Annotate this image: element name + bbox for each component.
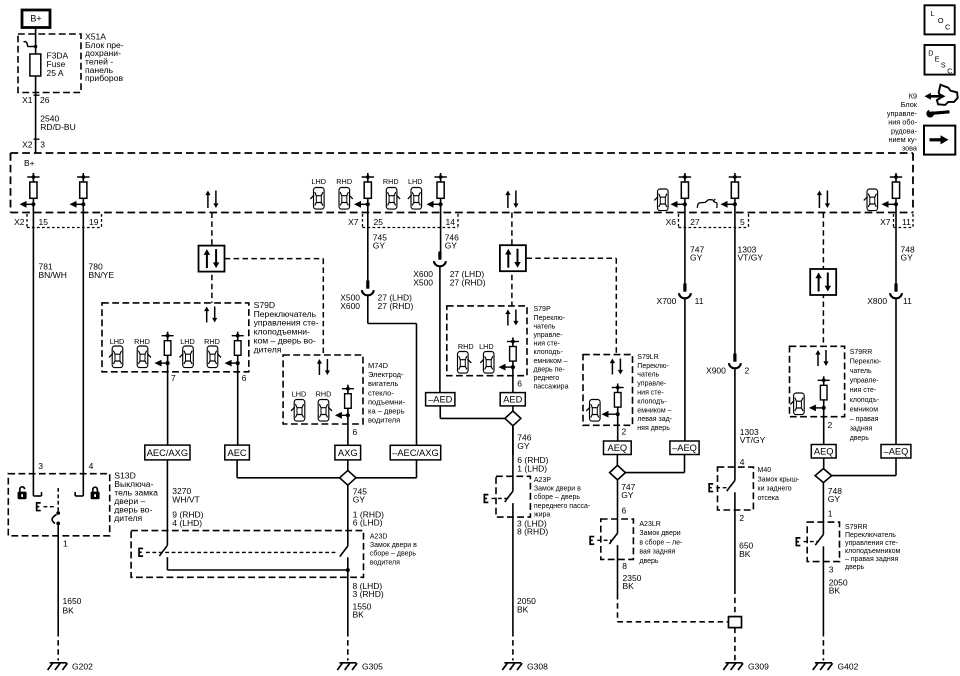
label LHD xyxy=(479,342,494,351)
wire dashed to G202 xyxy=(57,631,59,661)
svg-text:Электрод-: Электрод- xyxy=(368,370,404,379)
svg-text:BN/YE: BN/YE xyxy=(89,270,115,280)
svg-text:задняя: задняя xyxy=(850,426,873,433)
label pins 3 LHD 8 RHD xyxy=(517,519,548,537)
wire dashed to G402 xyxy=(822,631,824,661)
flag box -AED xyxy=(426,393,455,406)
svg-text:1 (LHD): 1 (LHD) xyxy=(517,463,547,473)
wire AEQ right to junction xyxy=(823,458,825,469)
wire dashed 650 BK to splice xyxy=(734,589,736,617)
window switch S79RR bottom dashed box xyxy=(807,522,839,562)
svg-text:2: 2 xyxy=(828,420,833,430)
ground G202 xyxy=(48,662,93,672)
bus tap fuse to circuit 745 xyxy=(354,173,374,208)
svg-text:дверь: дверь xyxy=(845,564,865,571)
svg-text:RHD: RHD xyxy=(383,177,399,186)
svg-text:клоподъемником: клоподъемником xyxy=(845,548,901,555)
svg-text:Замок двери в: Замок двери в xyxy=(534,486,581,493)
svg-text:5: 5 xyxy=(740,217,745,227)
svg-text:4: 4 xyxy=(89,461,94,471)
label A23P door lock front passenger xyxy=(534,477,591,518)
svg-text:3 (RHD): 3 (RHD) xyxy=(353,589,384,599)
svg-text:X7: X7 xyxy=(348,217,359,227)
flag box -AEQ left xyxy=(670,441,699,455)
wire -AEC/AXG to junction xyxy=(356,460,416,478)
bus tap fuse to circuit 748 xyxy=(882,173,903,208)
svg-text:WH/VT: WH/VT xyxy=(172,495,199,505)
svg-text:управле-: управле- xyxy=(887,109,918,118)
updown arrows in S79RR xyxy=(815,350,828,366)
svg-text:пассажира: пассажира xyxy=(534,384,569,391)
wire AEC to junction xyxy=(237,460,339,478)
svg-text:зова: зова xyxy=(902,144,918,153)
label LHD xyxy=(292,390,307,399)
wire 1303 VT/GY to M40 xyxy=(734,368,736,475)
svg-text:управле-: управле- xyxy=(850,378,880,385)
svg-text:X900: X900 xyxy=(706,365,726,375)
wire 3270 WH/VT xyxy=(166,460,168,545)
label 780 BN/YE xyxy=(89,262,115,281)
label 746 GY lower xyxy=(517,433,531,451)
svg-text:BK: BK xyxy=(353,609,365,619)
wire S13D pin1 down xyxy=(58,523,68,631)
label LHD xyxy=(180,337,195,346)
car icon at X7 right xyxy=(864,189,878,211)
pin tick X2-3 xyxy=(34,138,40,140)
svg-text:X600: X600 xyxy=(340,301,360,311)
label RHD xyxy=(383,177,399,186)
fuse arrow unit S79LR pin 2 xyxy=(602,384,624,418)
svg-text:B+: B+ xyxy=(30,14,41,24)
label X2 pin 3 xyxy=(22,140,45,150)
car icon LHD xyxy=(480,352,494,374)
svg-text:ния обо-: ния обо- xyxy=(888,118,917,127)
svg-text:BK: BK xyxy=(517,604,529,614)
wire AEQ to junction xyxy=(616,455,618,466)
svg-text:4: 4 xyxy=(740,457,745,467)
svg-text:1650: 1650 xyxy=(63,596,82,606)
car icon LHD xyxy=(180,346,194,368)
svg-text:AEC: AEC xyxy=(228,448,247,458)
K9 module outline icon xyxy=(937,85,958,105)
DESC reference box xyxy=(925,45,955,75)
pin tick X1-26 xyxy=(34,94,40,96)
svg-text:отсека: отсека xyxy=(758,495,779,502)
wire dashed to G305 xyxy=(347,631,349,661)
label S79RR window switch right rear xyxy=(850,349,882,442)
switch E actuator A23D xyxy=(139,548,337,556)
svg-text:водителя: водителя xyxy=(368,416,400,425)
svg-text:7: 7 xyxy=(171,373,176,383)
car icon LHD xyxy=(310,188,324,210)
svg-text:ки заднего: ки заднего xyxy=(758,486,792,493)
label LHD xyxy=(408,177,423,186)
label S79D window switch driver door xyxy=(254,300,319,355)
svg-text:стекло-: стекло- xyxy=(368,388,394,397)
label 3270 WH/VT xyxy=(172,486,199,504)
svg-text:AEQ: AEQ xyxy=(608,443,628,453)
flag box AEC/AXG xyxy=(145,445,190,460)
svg-text:G402: G402 xyxy=(838,662,859,672)
label A23D door lock driver xyxy=(370,533,417,566)
svg-text:LHD: LHD xyxy=(292,390,307,399)
wire 748 GY to -AEQ right xyxy=(895,298,897,445)
switch blade M40 and wire down xyxy=(727,475,745,589)
trunk lock M40 dashed box xyxy=(718,467,754,510)
svg-text:AEC/AXG: AEC/AXG xyxy=(147,448,188,458)
boxed updown arrows S79RR xyxy=(810,269,836,295)
fuse arrow unit S79P pin 6 xyxy=(499,338,519,371)
wire 747 GY upper xyxy=(684,204,686,284)
svg-text:ния сте-: ния сте- xyxy=(534,341,561,348)
switch S13D center post xyxy=(52,488,60,525)
switch blade S79RR and wire down xyxy=(815,510,833,631)
svg-text:S: S xyxy=(941,61,946,70)
label X600 X500 xyxy=(413,269,433,288)
label pins 1 RHD 6 LHD xyxy=(353,509,384,527)
window motor M74D dashed box xyxy=(283,355,363,424)
switch E actuator S79RR xyxy=(796,538,818,546)
flag box -AEQ right xyxy=(881,445,911,459)
bus tap fuse to circuit 1303 xyxy=(721,173,742,208)
svg-text:6: 6 xyxy=(353,427,358,437)
junction diamond 748 xyxy=(815,469,832,483)
label pins 27 LHD RHD xyxy=(450,269,486,288)
svg-text:ния сте-: ния сте- xyxy=(637,390,664,397)
wire S79P pin6 to AED xyxy=(513,367,522,393)
svg-text:X1: X1 xyxy=(22,95,33,105)
svg-text:AXG: AXG xyxy=(338,448,358,458)
updown arrows at S79P control xyxy=(505,191,518,209)
label 2050 BK right xyxy=(829,578,848,596)
connector X2 pin box xyxy=(14,214,101,228)
LOC reference box xyxy=(925,5,955,34)
svg-text:емником –: емником – xyxy=(534,358,568,365)
svg-text:вая задняя: вая задняя xyxy=(639,549,675,556)
svg-text:BK: BK xyxy=(829,585,841,595)
bus tap fuse to circuit 780 xyxy=(70,173,90,208)
wire 746 GY upper xyxy=(440,204,442,251)
svg-text:клоподъ-: клоподъ- xyxy=(534,349,564,356)
door lock A23P dashed box xyxy=(496,476,530,517)
svg-text:ния сте-: ния сте- xyxy=(850,387,877,394)
svg-text:C: C xyxy=(947,66,952,75)
switch E actuator A23LR xyxy=(590,537,612,545)
svg-text:D: D xyxy=(928,49,933,58)
label RHD xyxy=(316,390,332,399)
wire 745 GY upper xyxy=(367,204,369,281)
svg-text:Переключатель: Переключатель xyxy=(845,532,896,539)
wire label 2540 RD/D-BU xyxy=(40,114,75,133)
svg-text:3: 3 xyxy=(38,461,43,471)
car icon right rear xyxy=(790,393,804,415)
svg-text:25 A: 25 A xyxy=(47,68,64,78)
svg-text:3: 3 xyxy=(829,565,834,575)
connector X900 inline xyxy=(729,354,741,369)
svg-text:C: C xyxy=(945,22,951,31)
svg-text:управле-: управле- xyxy=(637,381,667,388)
svg-text:27 (RHD): 27 (RHD) xyxy=(378,301,414,311)
svg-text:25: 25 xyxy=(374,217,384,227)
bus tap fuse to circuit 747 xyxy=(671,173,692,208)
svg-text:11: 11 xyxy=(903,296,912,306)
car icon RHD xyxy=(339,188,353,210)
bus tap fuse to circuit 746 xyxy=(427,173,447,208)
svg-text:BK: BK xyxy=(623,581,635,591)
svg-text:X500: X500 xyxy=(413,278,433,288)
wire AXG to junction xyxy=(347,460,349,471)
updown arrows in S79LR xyxy=(610,359,623,375)
svg-text:Замок крыш-: Замок крыш- xyxy=(758,476,800,483)
svg-text:дверь: дверь xyxy=(639,558,659,565)
svg-text:чатель: чатель xyxy=(534,323,556,330)
connector X800 inline xyxy=(890,284,902,299)
car icon at X6 xyxy=(654,189,668,211)
wire AED to junction xyxy=(512,406,514,411)
svg-text:управле-: управле- xyxy=(534,332,564,339)
boxed updown arrows S79D xyxy=(199,246,225,272)
wire from B+ to fuse F3DA xyxy=(35,28,37,55)
svg-text:S79RR: S79RR xyxy=(845,524,868,531)
svg-text:M74D: M74D xyxy=(368,361,389,370)
svg-text:S79RR: S79RR xyxy=(850,349,873,356)
svg-text:14: 14 xyxy=(446,217,456,227)
svg-text:ка – дверь: ка – дверь xyxy=(368,407,405,416)
window switch S79D dashed box xyxy=(102,303,249,372)
svg-text:S79LR: S79LR xyxy=(637,354,658,361)
wire S79D pin6 to AEC xyxy=(238,363,247,445)
svg-text:X2: X2 xyxy=(14,217,25,227)
switch blade A23P and wire down xyxy=(505,426,513,631)
wire A23D bottom link xyxy=(167,557,349,572)
flag box AXG xyxy=(335,445,361,460)
ground G308 xyxy=(502,662,548,672)
wire S79RR pin2 to AEQ xyxy=(824,408,833,445)
svg-text:сборе – дверь: сборе – дверь xyxy=(534,493,580,501)
svg-text:19: 19 xyxy=(89,217,99,227)
svg-text:клоподъ-: клоподъ- xyxy=(850,397,880,404)
svg-text:GY: GY xyxy=(373,240,386,250)
svg-text:6: 6 xyxy=(622,506,627,516)
connector X7 right pin box xyxy=(880,214,913,228)
svg-text:GY: GY xyxy=(901,253,914,263)
svg-text:8 (RHD): 8 (RHD) xyxy=(517,527,548,537)
wire 1303 VT/GY upper xyxy=(734,204,736,354)
svg-text:Замок двери в: Замок двери в xyxy=(370,542,417,549)
svg-text:GY: GY xyxy=(828,494,841,504)
svg-text:8: 8 xyxy=(622,561,627,571)
label F3DA Fuse 25 A xyxy=(47,51,69,78)
svg-text:X2: X2 xyxy=(22,140,33,150)
switch E actuator M40 xyxy=(709,484,730,492)
wire hooks into S13D xyxy=(33,492,83,496)
svg-text:GY: GY xyxy=(690,253,703,263)
flag box AED xyxy=(500,393,525,406)
svg-text:AED: AED xyxy=(503,395,522,405)
svg-text:2: 2 xyxy=(622,427,627,437)
label X800 pin 11 xyxy=(867,296,912,306)
svg-text:X700: X700 xyxy=(657,296,677,306)
car icon RHD xyxy=(318,400,332,422)
label 1650 BK xyxy=(63,596,82,616)
svg-text:M40: M40 xyxy=(758,467,772,474)
svg-text:6: 6 xyxy=(517,379,522,389)
label 748 GY lower xyxy=(828,486,842,504)
fuse arrow unit S79D pin 7 xyxy=(155,332,174,367)
control dashed branch to M74D xyxy=(225,259,324,355)
svg-text:вигатель: вигатель xyxy=(368,379,398,388)
wire 780 BN/YE xyxy=(82,204,84,496)
flag box -AEC/AXG xyxy=(390,445,441,460)
flag box AEC xyxy=(225,445,250,460)
svg-text:G308: G308 xyxy=(527,662,548,672)
svg-text:11: 11 xyxy=(695,296,704,306)
svg-text:левая зад-: левая зад- xyxy=(637,416,672,423)
svg-text:2: 2 xyxy=(745,365,750,375)
label pins 3 and 4 xyxy=(38,461,93,471)
label K9 body control module xyxy=(887,92,918,153)
label 748 GY xyxy=(901,244,915,262)
svg-text:– правая задняя: – правая задняя xyxy=(845,556,899,563)
car icon LHD xyxy=(291,400,305,422)
svg-text:A23P: A23P xyxy=(534,477,551,484)
label 650 BK xyxy=(739,541,753,560)
wire fuse to bus with connectors X1 X2 xyxy=(35,76,37,153)
svg-text:VT/GY: VT/GY xyxy=(738,253,764,263)
label RHD xyxy=(458,342,474,351)
svg-text:X800: X800 xyxy=(867,296,887,306)
label 781 BN/WH xyxy=(39,262,67,281)
fuse clip hook xyxy=(24,42,38,49)
svg-text:сборе – дверь: сборе – дверь xyxy=(370,550,416,558)
label S79RR window switch right rear bottom xyxy=(845,524,901,571)
svg-text:GY: GY xyxy=(353,495,366,505)
car icon RHD xyxy=(458,352,472,374)
svg-text:G305: G305 xyxy=(362,662,383,672)
switch blade A23D left xyxy=(159,545,167,556)
svg-text:O: O xyxy=(938,16,944,25)
connector X6 pin box xyxy=(666,214,749,228)
updown arrows in S79D xyxy=(204,307,217,323)
open padlock icon xyxy=(18,487,27,499)
svg-text:емником: емником xyxy=(850,406,879,413)
svg-text:RD/D-BU: RD/D-BU xyxy=(40,122,75,132)
updown arrows in S79P xyxy=(505,310,518,326)
svg-text:A23D: A23D xyxy=(370,533,388,540)
svg-text:4 (LHD): 4 (LHD) xyxy=(172,518,202,528)
wire 745 GY to A23D xyxy=(347,485,349,546)
label pins 27 LHD RHD xyxy=(378,292,414,310)
label pins 9 RHD 4 LHD xyxy=(172,510,203,528)
label X1 pin 26 xyxy=(22,95,50,105)
label 747 GY xyxy=(690,244,704,262)
label 745 GY xyxy=(373,232,387,250)
svg-text:2: 2 xyxy=(739,513,744,523)
K9 double arrow icon xyxy=(925,93,946,100)
window switch S79LR dashed box xyxy=(583,355,633,426)
label RHD xyxy=(336,177,352,186)
svg-text:G309: G309 xyxy=(748,662,769,672)
svg-text:жира: жира xyxy=(534,511,550,518)
connector X600 inline xyxy=(434,252,446,267)
control dashed branch to S79LR xyxy=(526,258,616,354)
car icon RHD xyxy=(137,346,151,368)
fuse arrow unit S79RR pin 2 xyxy=(809,376,830,411)
K9 wrench icon xyxy=(926,108,949,117)
power feed B+ terminal box xyxy=(22,10,50,28)
wire S79D pin7 to AEC/AXG xyxy=(168,363,176,445)
label 2350 BK xyxy=(623,573,642,591)
wire 747 GY to -AEQ xyxy=(684,298,686,441)
svg-text:26: 26 xyxy=(40,95,50,105)
svg-text:дверь пе-: дверь пе- xyxy=(534,366,566,373)
svg-text:GY: GY xyxy=(445,240,458,250)
wire dashed splice to G309 xyxy=(734,628,736,661)
label RHD xyxy=(204,337,220,346)
svg-text:BN/WH: BN/WH xyxy=(39,270,67,280)
wire 746 GY to -AED xyxy=(439,266,441,393)
label X51A fuse block xyxy=(85,31,124,83)
label LHD xyxy=(311,177,326,186)
svg-text:Переклю-: Переклю- xyxy=(534,315,566,322)
wire -AEQ to junction xyxy=(625,455,684,473)
junction diamond 746 xyxy=(505,411,521,426)
wire dashed A23LR to splice xyxy=(618,594,729,622)
svg-text:управления сте-: управления сте- xyxy=(845,540,899,547)
wire 1550 BK xyxy=(347,570,349,631)
wire 748 GY upper xyxy=(895,204,897,284)
label 2050 BK xyxy=(517,596,536,614)
svg-text:няя дверь: няя дверь xyxy=(637,425,670,432)
control dashed line to S79RR xyxy=(822,213,824,347)
label M74D window motor driver door xyxy=(368,361,406,425)
door lock A23LR dashed box xyxy=(601,519,634,559)
arrow reference box xyxy=(924,126,955,155)
svg-text:Переклю-: Переклю- xyxy=(850,358,882,365)
svg-text:нием ку-: нием ку- xyxy=(888,135,917,144)
label S79P window switch front passenger xyxy=(534,306,569,390)
switch E actuator S13D xyxy=(37,503,56,511)
svg-text:X7: X7 xyxy=(880,217,891,227)
ground G309 xyxy=(723,662,769,672)
car icon RHD xyxy=(207,346,221,368)
label S79LR window switch left rear xyxy=(637,354,672,432)
svg-text:К9: К9 xyxy=(909,92,917,101)
wire 746 GY to A23P xyxy=(512,426,514,455)
svg-text:LHD: LHD xyxy=(311,177,326,186)
control dashed line to S79D xyxy=(211,213,213,303)
ground G305 xyxy=(337,662,383,672)
svg-text:дителя: дителя xyxy=(114,513,142,523)
svg-text:3: 3 xyxy=(40,140,45,150)
svg-text:RHD: RHD xyxy=(316,390,332,399)
svg-text:LHD: LHD xyxy=(180,337,195,346)
wire -AEQ right to junction xyxy=(832,458,896,476)
label LHD xyxy=(110,337,125,346)
flag box AEQ right xyxy=(811,445,836,459)
wire 748 GY to S79RR switch xyxy=(822,483,824,510)
svg-text:подъемни-: подъемни- xyxy=(368,397,406,406)
car sedan profile icon xyxy=(697,199,717,208)
svg-text:B+: B+ xyxy=(24,158,35,168)
svg-text:G202: G202 xyxy=(72,662,93,672)
svg-text:чатель: чатель xyxy=(637,372,659,379)
svg-text:Переклю-: Переклю- xyxy=(637,363,669,370)
boxed updown arrows S79P xyxy=(500,245,526,271)
label 745 GY lower xyxy=(353,487,367,505)
wire S79LR pin2 to AEQ xyxy=(618,414,627,441)
wire 781 BN/WH xyxy=(32,204,34,496)
